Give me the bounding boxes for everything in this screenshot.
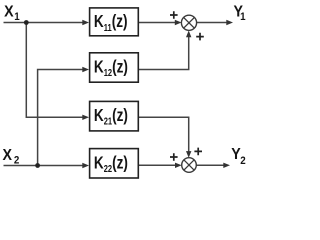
svg-text:X1: X1 [4, 3, 20, 24]
svg-text:Y2: Y2 [231, 145, 246, 167]
svg-text:Y1: Y1 [234, 3, 246, 24]
svg-text:X2: X2 [3, 146, 20, 167]
